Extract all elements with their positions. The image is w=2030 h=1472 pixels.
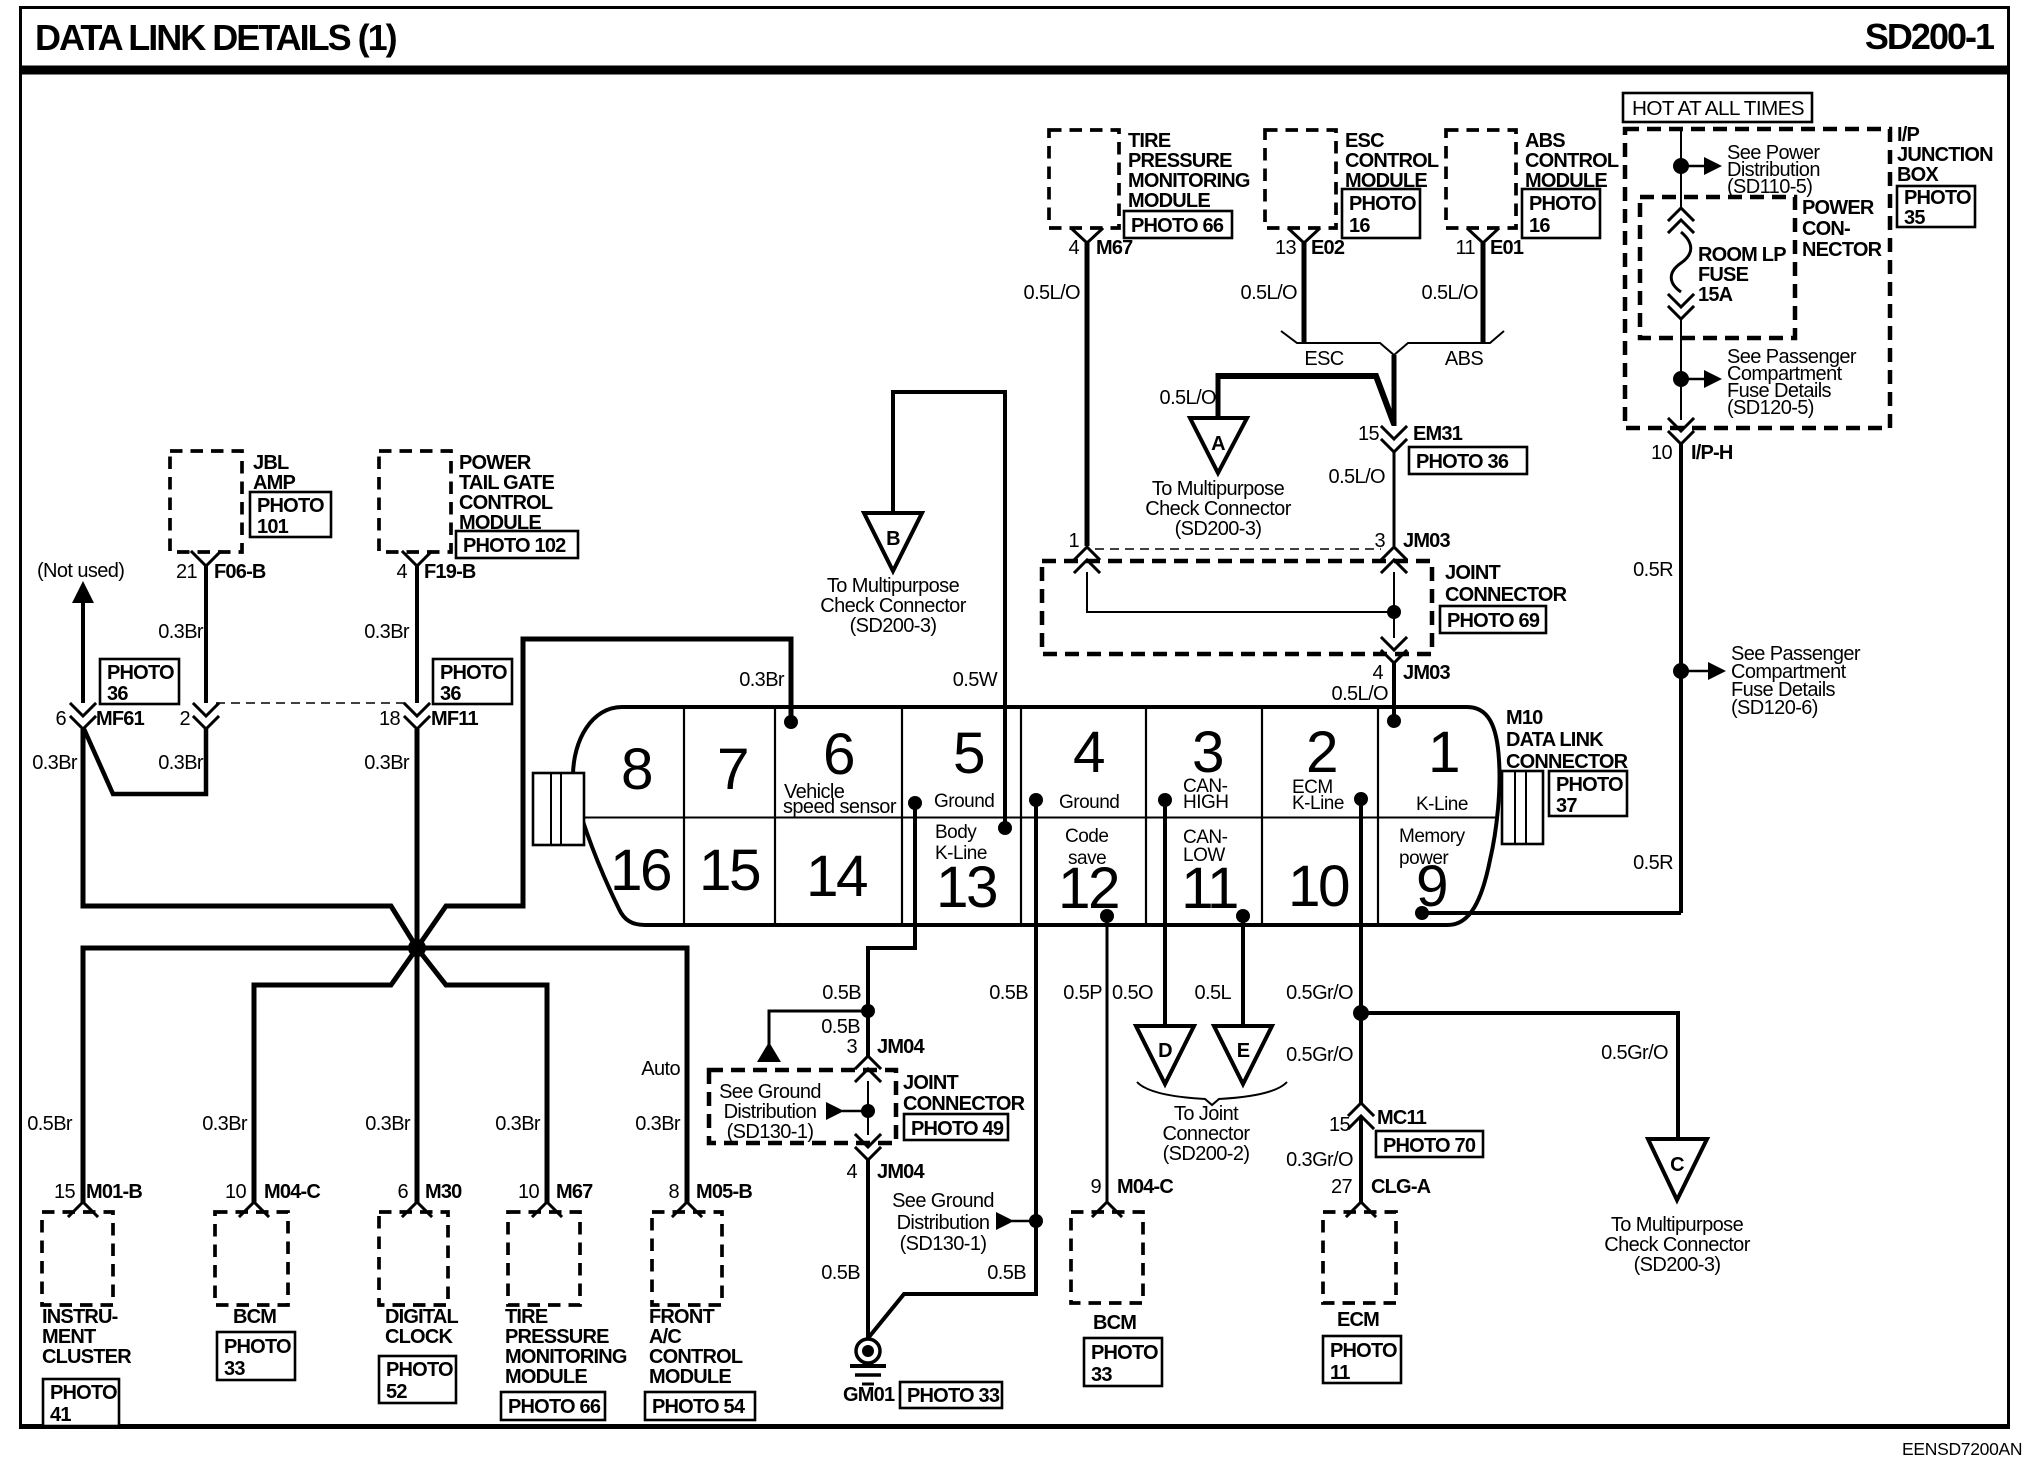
internal bus wire of JM03 bbox=[1087, 572, 1401, 638]
svg-text:JM04: JM04 bbox=[877, 1036, 926, 1058]
svg-text:Memory: Memory bbox=[1399, 826, 1466, 847]
svg-text:PHOTO 69: PHOTO 69 bbox=[1447, 610, 1540, 632]
node + arrow See Power Distribution bbox=[1673, 142, 1820, 198]
svg-text:PRESSURE: PRESSURE bbox=[1128, 150, 1232, 172]
svg-text:POWER: POWER bbox=[459, 452, 532, 474]
photo box PHOTO 36 (MF11) bbox=[433, 659, 512, 705]
wire 0.5L/O from E02 bbox=[1241, 243, 1304, 343]
svg-text:0.5L/O: 0.5L/O bbox=[1241, 282, 1297, 304]
svg-text:M01-B: M01-B bbox=[86, 1181, 142, 1203]
svg-text:I/P: I/P bbox=[1897, 124, 1920, 146]
svg-text:10: 10 bbox=[1288, 854, 1349, 919]
wire pin4 ground 0.5B to GM01 bbox=[869, 800, 1036, 1337]
pin 4 JM03 chevron bbox=[1372, 638, 1450, 684]
connector split 9 M04-C bbox=[1090, 1176, 1173, 1216]
svg-text:PHOTO 66: PHOTO 66 bbox=[1131, 215, 1224, 237]
svg-text:0.5Gr/O: 0.5Gr/O bbox=[1601, 1042, 1668, 1064]
connector 3 JM04 chevron bbox=[846, 1036, 925, 1081]
wire JM04 to ground GM01 bbox=[821, 1160, 868, 1339]
svg-text:To Multipurpose: To Multipurpose bbox=[827, 575, 960, 597]
svg-text:MONITORING: MONITORING bbox=[1128, 170, 1250, 192]
svg-text:MODULE: MODULE bbox=[649, 1366, 731, 1388]
svg-text:ABS: ABS bbox=[1525, 130, 1565, 152]
off-page triangle E bbox=[1214, 1026, 1272, 1084]
svg-text:POWER: POWER bbox=[1802, 197, 1875, 219]
svg-text:CONTROL: CONTROL bbox=[1345, 150, 1439, 172]
svg-text:ESC: ESC bbox=[1345, 130, 1384, 152]
svg-text:CONTROL: CONTROL bbox=[649, 1346, 743, 1368]
svg-text:41: 41 bbox=[50, 1404, 71, 1426]
svg-text:M67: M67 bbox=[556, 1181, 593, 1203]
svg-text:5: 5 bbox=[953, 721, 984, 786]
connector 4 JM04 chevron bbox=[846, 1135, 925, 1183]
svg-text:PHOTO: PHOTO bbox=[257, 495, 324, 517]
svg-text:8: 8 bbox=[668, 1181, 679, 1203]
svg-text:11: 11 bbox=[1455, 237, 1475, 259]
module DIGITAL CLOCK bbox=[379, 1212, 458, 1403]
svg-text:101: 101 bbox=[257, 516, 289, 538]
svg-text:Auto: Auto bbox=[641, 1058, 680, 1080]
svg-text:Distribution: Distribution bbox=[897, 1212, 990, 1234]
svg-text:(SD200-3): (SD200-3) bbox=[1175, 518, 1262, 540]
joint connector JM04 dashed box bbox=[709, 1070, 1026, 1143]
internal node of JM04 bbox=[826, 1081, 875, 1135]
svg-text:JM03: JM03 bbox=[1403, 662, 1451, 684]
svg-text:0.5B: 0.5B bbox=[989, 982, 1028, 1004]
wire X up-right to DLC pin 6 (0.3Br) bbox=[417, 639, 798, 948]
node and stub to ground distribution arrow bbox=[757, 1004, 875, 1062]
svg-text:power: power bbox=[1399, 848, 1449, 869]
merge brace ESC/ABS bbox=[1281, 331, 1504, 370]
svg-text:TIRE: TIRE bbox=[505, 1306, 548, 1328]
joint connector dashed box bbox=[1042, 561, 1568, 654]
svg-text:(SD200-2): (SD200-2) bbox=[1163, 1143, 1250, 1165]
wire labels above bottom connectors bbox=[27, 1058, 681, 1135]
svg-text:0.5O: 0.5O bbox=[1112, 982, 1153, 1004]
svg-text:MF61: MF61 bbox=[96, 708, 145, 730]
svg-text:FUSE: FUSE bbox=[1698, 264, 1749, 286]
svg-text:TIRE: TIRE bbox=[1128, 130, 1171, 152]
svg-text:C: C bbox=[1670, 1154, 1684, 1176]
svg-text:To Multipurpose: To Multipurpose bbox=[1611, 1214, 1744, 1236]
svg-text:JBL: JBL bbox=[253, 452, 289, 474]
dashed pair link line MF61/MF11 bbox=[216, 702, 405, 704]
off-page triangle C bbox=[1604, 1139, 1750, 1276]
wire X down-right to M67 bbox=[417, 948, 547, 1204]
svg-text:1: 1 bbox=[1428, 720, 1458, 785]
svg-text:0.5L/O: 0.5L/O bbox=[1024, 282, 1080, 304]
wire 0.5L pin11 to triangle E bbox=[1194, 916, 1243, 1026]
svg-text:Body: Body bbox=[935, 822, 977, 843]
svg-text:BCM: BCM bbox=[1093, 1312, 1136, 1334]
node + arrow See Passenger Compartment Fuse Details (SD120-6) bbox=[1673, 643, 1861, 719]
svg-text:See Ground: See Ground bbox=[892, 1190, 994, 1212]
pin 21 F06-B label bbox=[176, 561, 266, 583]
svg-text:JOINT: JOINT bbox=[1445, 562, 1500, 584]
pin 11 E01 label bbox=[1455, 237, 1523, 259]
svg-text:2: 2 bbox=[179, 708, 190, 730]
svg-text:PHOTO: PHOTO bbox=[386, 1359, 453, 1381]
pin node dots bbox=[908, 792, 1429, 923]
pin numbers top row bbox=[621, 720, 1458, 802]
svg-text:M67: M67 bbox=[1096, 237, 1133, 259]
svg-text:MC11: MC11 bbox=[1377, 1107, 1427, 1129]
I/P junction box (dashed) bbox=[1625, 124, 1993, 428]
svg-text:6: 6 bbox=[55, 708, 66, 730]
svg-text:PHOTO: PHOTO bbox=[1330, 1340, 1397, 1362]
power connector box (dashed) bbox=[1640, 197, 1883, 338]
connector 6 MF61 chevron bbox=[55, 704, 144, 730]
connector split M67 bbox=[1072, 229, 1102, 243]
svg-text:TAIL GATE: TAIL GATE bbox=[459, 472, 554, 494]
junction node X bbox=[408, 939, 426, 957]
connector 10 I/P-H bbox=[1651, 419, 1733, 464]
svg-text:PHOTO: PHOTO bbox=[50, 1382, 117, 1404]
wire MF11 vertical through X down to M30 bbox=[415, 729, 420, 1204]
svg-text:BOX: BOX bbox=[1897, 164, 1939, 186]
svg-text:Check Connector: Check Connector bbox=[820, 595, 966, 617]
right mounting tab bbox=[1502, 771, 1543, 844]
svg-text:Connector: Connector bbox=[1163, 1123, 1251, 1145]
svg-text:F19-B: F19-B bbox=[424, 561, 476, 583]
svg-text:4: 4 bbox=[1372, 662, 1383, 684]
svg-text:0.5Gr/O: 0.5Gr/O bbox=[1286, 1044, 1353, 1066]
svg-text:Distribution: Distribution bbox=[724, 1101, 817, 1123]
svg-text:HOT AT ALL TIMES: HOT AT ALL TIMES bbox=[1632, 98, 1804, 120]
wire 0.5L/O JM03 to DLC pin 1 bbox=[1332, 663, 1401, 728]
svg-text:0.5Gr/O: 0.5Gr/O bbox=[1286, 982, 1353, 1004]
wire labels 0.3Br row bbox=[32, 752, 410, 774]
svg-text:21: 21 bbox=[176, 561, 198, 583]
connector split 10 M67 bbox=[518, 1181, 593, 1216]
svg-text:BCM: BCM bbox=[233, 1306, 276, 1328]
connector split 27 CLG-A bbox=[1331, 1176, 1431, 1216]
svg-text:3: 3 bbox=[1374, 530, 1385, 552]
wire below fuse bbox=[1680, 319, 1682, 420]
svg-text:MONITORING: MONITORING bbox=[505, 1346, 627, 1368]
svg-text:CLUSTER: CLUSTER bbox=[42, 1346, 132, 1368]
svg-text:0.5L/O: 0.5L/O bbox=[1332, 683, 1388, 705]
pin 3 JM03 chevron bbox=[1374, 530, 1450, 572]
svg-text:F06-B: F06-B bbox=[214, 561, 266, 583]
svg-text:(SD120-6): (SD120-6) bbox=[1731, 697, 1818, 719]
svg-text:CLOCK: CLOCK bbox=[385, 1326, 453, 1348]
svg-text:(Not used): (Not used) bbox=[37, 560, 124, 582]
wire 0.3Br F06-B down bbox=[158, 566, 206, 703]
svg-text:9: 9 bbox=[1090, 1176, 1101, 1198]
svg-text:JM04: JM04 bbox=[877, 1161, 926, 1183]
node + arrow See Passenger Compartment Fuse Details (SD120-5) bbox=[1673, 346, 1857, 419]
module TIRE PRESSURE MONITORING MODULE (top) bbox=[1049, 130, 1250, 238]
svg-text:M30: M30 bbox=[425, 1181, 462, 1203]
inline connector 15 EM31 bbox=[1358, 423, 1527, 474]
svg-text:A/C: A/C bbox=[649, 1326, 681, 1348]
svg-text:0.5B: 0.5B bbox=[822, 982, 861, 1004]
svg-text:PHOTO 70: PHOTO 70 bbox=[1383, 1135, 1476, 1157]
connector split 6 M30 bbox=[397, 1181, 462, 1216]
connector pin 2 chevron bbox=[179, 704, 218, 730]
svg-text:0.5L: 0.5L bbox=[1194, 982, 1231, 1004]
pin 1 chevron (from M67) bbox=[1068, 530, 1099, 572]
svg-text:DIGITAL: DIGITAL bbox=[385, 1306, 458, 1328]
svg-text:13: 13 bbox=[1275, 237, 1297, 259]
svg-text:DATA LINK: DATA LINK bbox=[1506, 729, 1604, 751]
pin function labels bbox=[783, 776, 1468, 869]
wire 0.5O pin3 to triangle D bbox=[1112, 800, 1165, 1026]
svg-text:0.5R: 0.5R bbox=[1633, 852, 1673, 874]
svg-text:10: 10 bbox=[225, 1181, 247, 1203]
module ABS CONTROL MODULE bbox=[1446, 130, 1619, 238]
svg-text:speed sensor: speed sensor bbox=[783, 796, 897, 818]
wire pin5 ground 0.5B to JM04 bbox=[822, 803, 915, 1011]
wire 0.5L/O branch to triangle A bbox=[1160, 373, 1394, 424]
svg-text:K-Line: K-Line bbox=[935, 843, 987, 864]
module POWER TAIL GATE CONTROL MODULE bbox=[379, 451, 578, 558]
svg-text:0.3Br: 0.3Br bbox=[158, 752, 204, 774]
svg-text:JUNCTION: JUNCTION bbox=[1897, 144, 1993, 166]
svg-text:MENT: MENT bbox=[42, 1326, 96, 1348]
wire 0.5Gr/O pin2 down bbox=[1286, 799, 1369, 1103]
off-page triangle B with 0.5W wire to pin 13 bbox=[820, 392, 1005, 828]
note See Ground Distribution (SD130-1) right bbox=[892, 1190, 1043, 1255]
module BCM (left) bbox=[215, 1212, 295, 1380]
ground symbol GM01 bbox=[843, 1339, 1002, 1408]
svg-text:E01: E01 bbox=[1490, 237, 1524, 259]
svg-text:0.5R: 0.5R bbox=[1633, 559, 1673, 581]
svg-text:0.3Br: 0.3Br bbox=[32, 752, 78, 774]
module FRONT A/C CONTROL MODULE bbox=[645, 1212, 755, 1420]
svg-text:K-Line: K-Line bbox=[1416, 794, 1468, 815]
label HOT AT ALL TIMES bbox=[1623, 93, 1812, 122]
svg-text:0.5B: 0.5B bbox=[987, 1262, 1026, 1284]
svg-text:0.5P: 0.5P bbox=[1063, 982, 1102, 1004]
svg-text:E02: E02 bbox=[1311, 237, 1345, 259]
svg-text:37: 37 bbox=[1556, 795, 1577, 817]
svg-text:0.5L/O: 0.5L/O bbox=[1160, 387, 1216, 409]
module BCM (right) bbox=[1071, 1212, 1162, 1386]
svg-text:PHOTO: PHOTO bbox=[1091, 1342, 1158, 1364]
svg-text:33: 33 bbox=[224, 1358, 245, 1380]
wire feed into fuse bbox=[1680, 129, 1682, 209]
svg-text:0.3Br: 0.3Br bbox=[364, 621, 410, 643]
svg-text:0.3Br: 0.3Br bbox=[495, 1113, 541, 1135]
connector 18 MF11 chevron bbox=[379, 704, 479, 730]
svg-text:4: 4 bbox=[1068, 237, 1079, 259]
svg-text:LOW: LOW bbox=[1183, 845, 1225, 866]
wire 0.5R down right side bbox=[1633, 444, 1681, 913]
svg-text:7: 7 bbox=[717, 737, 747, 802]
svg-text:PHOTO: PHOTO bbox=[1529, 193, 1596, 215]
cell grid bbox=[584, 707, 1498, 925]
svg-text:PHOTO 33: PHOTO 33 bbox=[907, 1385, 1000, 1407]
wire 0.5P pin12 to BCM M04-C bbox=[1063, 916, 1107, 1204]
svg-text:18: 18 bbox=[379, 708, 401, 730]
svg-text:27: 27 bbox=[1331, 1176, 1353, 1198]
svg-text:35: 35 bbox=[1904, 207, 1925, 229]
svg-text:CON-: CON- bbox=[1802, 218, 1850, 240]
svg-text:(SD200-3): (SD200-3) bbox=[850, 615, 937, 637]
wire MF61 branch down to X bbox=[83, 729, 417, 948]
svg-text:M04-C: M04-C bbox=[264, 1181, 320, 1203]
svg-text:JOINT: JOINT bbox=[903, 1072, 958, 1094]
off-page triangle A bbox=[1145, 418, 1291, 540]
connector M10 outline bbox=[573, 707, 1500, 925]
svg-text:ROOM LP: ROOM LP bbox=[1698, 244, 1786, 266]
svg-text:8: 8 bbox=[621, 737, 651, 802]
svg-text:52: 52 bbox=[386, 1381, 407, 1403]
svg-text:15: 15 bbox=[1358, 423, 1380, 445]
svg-text:CONNECTOR: CONNECTOR bbox=[1445, 584, 1568, 606]
svg-text:0.5B: 0.5B bbox=[821, 1016, 860, 1038]
brace under D and E bbox=[1137, 1082, 1287, 1165]
wire 0.3Gr/O MC11 to ECM bbox=[1286, 1116, 1361, 1204]
svg-text:15: 15 bbox=[54, 1181, 76, 1203]
svg-text:16: 16 bbox=[610, 838, 670, 903]
wire pin9 memory power to 0.5R bbox=[1422, 911, 1681, 915]
svg-text:PHOTO: PHOTO bbox=[1349, 193, 1416, 215]
svg-text:(SD130-1): (SD130-1) bbox=[900, 1233, 987, 1255]
svg-text:PHOTO 66: PHOTO 66 bbox=[508, 1396, 601, 1418]
svg-text:M05-B: M05-B bbox=[696, 1181, 752, 1203]
svg-text:0.5L/O: 0.5L/O bbox=[1329, 466, 1385, 488]
connector 15 MC11 chevron bbox=[1329, 1103, 1483, 1157]
pin 4 F19-B label bbox=[396, 561, 475, 583]
svg-text:PHOTO: PHOTO bbox=[1556, 774, 1623, 796]
svg-text:NECTOR: NECTOR bbox=[1802, 239, 1883, 261]
svg-text:CLG-A: CLG-A bbox=[1371, 1176, 1431, 1198]
svg-text:Check Connector: Check Connector bbox=[1145, 498, 1291, 520]
svg-text:36: 36 bbox=[107, 683, 128, 705]
svg-text:MODULE: MODULE bbox=[1128, 190, 1210, 212]
svg-text:0.5L/O: 0.5L/O bbox=[1422, 282, 1478, 304]
svg-text:(SD120-5): (SD120-5) bbox=[1727, 397, 1814, 419]
svg-text:PHOTO: PHOTO bbox=[440, 662, 507, 684]
svg-text:PHOTO: PHOTO bbox=[107, 662, 174, 684]
svg-text:FRONT: FRONT bbox=[649, 1306, 714, 1328]
svg-text:PRESSURE: PRESSURE bbox=[505, 1326, 609, 1348]
(Not used) arrow bbox=[37, 560, 124, 703]
wire link pin2 to MF61 bbox=[84, 729, 206, 794]
connector split 10 M04-C bbox=[225, 1181, 320, 1216]
off-page triangle D bbox=[1136, 1026, 1194, 1084]
svg-text:13: 13 bbox=[936, 855, 996, 920]
svg-text:0.3Gr/O: 0.3Gr/O bbox=[1286, 1149, 1353, 1171]
svg-text:4: 4 bbox=[846, 1161, 857, 1183]
svg-text:PHOTO: PHOTO bbox=[1904, 187, 1971, 209]
svg-text:GM01: GM01 bbox=[843, 1384, 895, 1406]
svg-text:0.5W: 0.5W bbox=[953, 669, 998, 691]
svg-text:15: 15 bbox=[699, 838, 760, 903]
connector split 8 M05-B bbox=[668, 1181, 752, 1216]
svg-text:(SD200-3): (SD200-3) bbox=[1634, 1254, 1721, 1276]
svg-text:15: 15 bbox=[1329, 1114, 1351, 1136]
wire 0.5L/O from M67 to JM03 pin1 bbox=[1024, 243, 1087, 546]
svg-text:0.3Br: 0.3Br bbox=[635, 1113, 681, 1135]
svg-text:33: 33 bbox=[1091, 1364, 1112, 1386]
svg-text:SD200-1: SD200-1 bbox=[1865, 16, 1995, 57]
svg-text:CONTROL: CONTROL bbox=[459, 492, 553, 514]
pin numbers bottom row bbox=[610, 838, 1446, 921]
svg-text:0.3Br: 0.3Br bbox=[364, 752, 410, 774]
M10 DATA LINK CONNECTOR label bbox=[1506, 707, 1629, 817]
svg-text:0.3Br: 0.3Br bbox=[365, 1113, 411, 1135]
svg-text:PHOTO: PHOTO bbox=[224, 1336, 291, 1358]
fuse ROOM LP FUSE 15A bbox=[1669, 208, 1786, 319]
svg-text:M10: M10 bbox=[1506, 707, 1543, 729]
pin 13 E02 label bbox=[1275, 237, 1345, 259]
connector split E02 bbox=[1289, 229, 1319, 243]
svg-text:MODULE: MODULE bbox=[505, 1366, 587, 1388]
module ECM bbox=[1323, 1212, 1401, 1384]
svg-text:1: 1 bbox=[1068, 530, 1079, 552]
svg-text:10: 10 bbox=[1651, 442, 1673, 464]
svg-text:6: 6 bbox=[823, 722, 853, 787]
svg-text:JM03: JM03 bbox=[1403, 530, 1451, 552]
svg-text:2: 2 bbox=[1306, 720, 1336, 785]
svg-text:ESC: ESC bbox=[1304, 348, 1343, 370]
svg-text:CONNECTOR: CONNECTOR bbox=[903, 1093, 1026, 1115]
connector split E01 bbox=[1468, 229, 1498, 243]
svg-text:0.5Br: 0.5Br bbox=[27, 1113, 73, 1135]
svg-text:4: 4 bbox=[1073, 720, 1104, 785]
svg-text:0.5B: 0.5B bbox=[821, 1262, 860, 1284]
svg-text:Ground: Ground bbox=[934, 791, 994, 812]
svg-text:(SD110-5): (SD110-5) bbox=[1727, 176, 1812, 198]
wire X down-left to M04-C bbox=[254, 948, 417, 1204]
svg-text:To Joint: To Joint bbox=[1174, 1103, 1239, 1125]
svg-text:K-Line: K-Line bbox=[1292, 793, 1344, 814]
svg-text:Code: Code bbox=[1065, 826, 1108, 847]
svg-text:PHOTO 54: PHOTO 54 bbox=[652, 1396, 746, 1418]
svg-text:36: 36 bbox=[440, 683, 461, 705]
wire 0.5L/O from E01 bbox=[1422, 243, 1483, 343]
svg-text:CONTROL: CONTROL bbox=[1525, 150, 1619, 172]
svg-text:MF11: MF11 bbox=[431, 708, 478, 730]
svg-text:0.3Br: 0.3Br bbox=[202, 1113, 248, 1135]
svg-text:DATA LINK DETAILS (1): DATA LINK DETAILS (1) bbox=[35, 17, 397, 58]
svg-text:Ground: Ground bbox=[1059, 792, 1119, 813]
svg-text:I/P-H: I/P-H bbox=[1691, 442, 1733, 464]
module ESC CONTROL MODULE bbox=[1265, 130, 1439, 238]
svg-text:ABS: ABS bbox=[1445, 348, 1483, 370]
svg-text:See Ground: See Ground bbox=[719, 1081, 821, 1103]
svg-text:16: 16 bbox=[1349, 215, 1370, 237]
svg-text:Check Connector: Check Connector bbox=[1604, 1234, 1750, 1256]
svg-text:PHOTO 102: PHOTO 102 bbox=[463, 535, 566, 557]
wire X horizontal to M01-B and M05-B bbox=[83, 948, 687, 1204]
photo box PHOTO 36 (MF61) bbox=[100, 659, 179, 705]
wire 0.5Gr/O branch to triangle C bbox=[1361, 1013, 1678, 1139]
svg-text:To Multipurpose: To Multipurpose bbox=[1152, 478, 1285, 500]
svg-text:PHOTO 36: PHOTO 36 bbox=[1416, 451, 1509, 473]
svg-text:10: 10 bbox=[518, 1181, 540, 1203]
left mounting tab bbox=[533, 773, 584, 845]
module INSTRUMENT CLUSTER bbox=[42, 1212, 132, 1426]
module TIRE PRESSURE MONITORING MODULE (bottom) bbox=[501, 1212, 627, 1420]
svg-text:E: E bbox=[1237, 1040, 1250, 1062]
svg-text:14: 14 bbox=[806, 844, 867, 909]
svg-text:15A: 15A bbox=[1698, 284, 1733, 306]
wire EM31 to JM03 bbox=[1329, 452, 1394, 546]
wire merged to EM31 bbox=[1392, 355, 1397, 426]
svg-text:(SD130-1): (SD130-1) bbox=[727, 1121, 814, 1143]
pin 4 M67 label bbox=[1068, 237, 1133, 259]
connector split 15 M01-B bbox=[54, 1181, 142, 1216]
svg-text:INSTRU-: INSTRU- bbox=[42, 1306, 118, 1328]
svg-text:save: save bbox=[1068, 848, 1106, 869]
svg-text:HIGH: HIGH bbox=[1183, 792, 1229, 813]
svg-text:ECM: ECM bbox=[1337, 1309, 1379, 1331]
